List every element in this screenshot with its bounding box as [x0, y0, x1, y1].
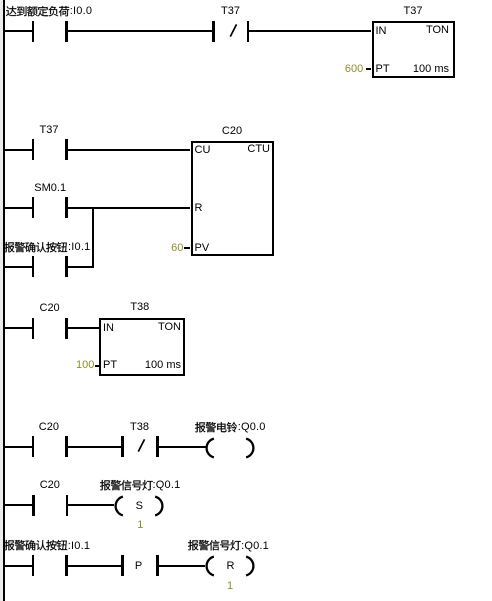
wire rail to contact SM0.1 [4, 207, 32, 209]
T38 type TON [158, 321, 181, 334]
label T37 (NC contact) [191, 5, 271, 18]
NC contact T37 left leg [212, 21, 214, 42]
label :Q0.1 rung 6 (latin part) [241, 540, 269, 553]
label 报警确认按钮:I0.1 rung 6 (CJK part) [4, 539, 68, 553]
reset coil Q0.1 alarm lamp [205, 555, 255, 577]
C20 pin PV [195, 242, 210, 255]
contact SM0.1 right leg [65, 197, 67, 218]
contact T37 right leg [65, 139, 67, 160]
contact C20 right leg rung 5 [66, 495, 68, 516]
wire rail to contact I0.0 [4, 30, 32, 32]
label C20 (contact) [10, 302, 90, 315]
timer T38 box label [100, 301, 180, 314]
branch vertical wire I0.1 up to R rung [92, 207, 94, 268]
wire contact C20 to timer T38 box [68, 327, 99, 329]
wire rail to contact C20 [4, 327, 32, 329]
wire rail to contact C20 rung 4 [4, 446, 32, 448]
wire contact I0.1 to branch [68, 266, 95, 268]
label SM0.1 [10, 182, 90, 195]
label 报警电铃:Q0.0 (CJK part) [195, 421, 238, 435]
contact SM0.1 left leg [32, 197, 34, 218]
T37 type TON [426, 24, 449, 37]
NC contact T38 right leg [156, 436, 158, 457]
timer T38 TON box [99, 318, 185, 377]
wire contact T37 to counter CU input [68, 149, 191, 151]
label 报警确认按钮:I0.1 (CJK part) [4, 241, 68, 255]
wire NC contact T38 to coil Q0.0 [159, 446, 206, 448]
counter C20 box label [192, 125, 272, 138]
contact C20 left leg rung 5 [32, 495, 34, 516]
set coil Q0.1 alarm lamp [114, 495, 164, 517]
wire contact I0.1 to P contact [68, 565, 122, 567]
contact C20 left leg [32, 318, 34, 339]
contact T37 left leg [32, 139, 34, 160]
C20 pin R [195, 202, 203, 215]
NC contact T38 slash [137, 438, 146, 453]
T37 pin PT [376, 63, 390, 76]
contact C20 left leg rung 4 [32, 436, 34, 457]
wire NC contact T37 to timer T37 box [249, 30, 372, 32]
output coil Q0.0 alarm bell [205, 437, 255, 459]
tick 600 to PT [366, 68, 372, 70]
T37 pin IN [376, 25, 387, 38]
contact I0.1 right leg rung 6 [65, 555, 67, 576]
T38 time base 100 ms [145, 359, 181, 372]
label T37 (contact) [9, 124, 89, 137]
contact C20 right leg [65, 318, 67, 339]
NC contact T37 slash [229, 23, 238, 38]
reset coil letter R [191, 560, 271, 573]
wire rail to contact T37 [4, 149, 32, 151]
positive edge contact P right leg [156, 555, 158, 576]
wire contact SM0.1 to counter R input [68, 207, 191, 209]
contact I0.1 right leg [65, 256, 67, 277]
label 报警信号灯:Q0.1 (CJK part) [100, 479, 154, 493]
wire rail to contact I0.1 [4, 266, 32, 268]
label 达到额定负荷:I0.0 (CJK part), input I0.0 [6, 5, 70, 19]
wire rail to contact C20 rung 5 [4, 504, 33, 506]
C20 PV value 60 [171, 242, 183, 255]
contact I0.0 left leg [32, 21, 34, 42]
left power rail [0, 0, 3, 601]
label :I0.0 (latin part) [70, 5, 92, 18]
set coil letter S [99, 500, 179, 513]
positive edge letter P [99, 560, 179, 573]
T38 pin IN [103, 322, 114, 335]
timer T37 TON box [372, 21, 455, 78]
label :I0.1 rung 6 (latin part) [68, 540, 90, 553]
set coil count 1 [100, 519, 180, 532]
contact I0.0 right leg [65, 21, 67, 42]
label :Q0.1 (latin part) [153, 479, 181, 492]
tick 60 to PV [184, 247, 190, 249]
wire P contact to reset coil [159, 565, 205, 567]
contact I0.1 left leg rung 6 [32, 555, 34, 576]
tick 100 to PT [95, 365, 99, 367]
NC contact T37 right leg [247, 21, 249, 42]
T38 PT value 100 [76, 359, 94, 372]
label :Q0.0 (latin part) [238, 421, 266, 434]
label :I0.1 (latin part) [68, 241, 90, 254]
contact C20 right leg rung 4 [65, 436, 67, 457]
reset coil count 1 [190, 580, 270, 593]
NC contact T38 left leg [121, 436, 123, 457]
label C20 (contact, rung 5) [10, 479, 90, 492]
wire contact C20 to NC contact T38 [68, 446, 122, 448]
wire rail to contact I0.1 rung 6 [4, 565, 32, 567]
contact I0.1 left leg [32, 256, 34, 277]
label 报警信号灯:Q0.1 rung 6 (CJK part) [188, 539, 242, 553]
T37 time base 100 ms [413, 63, 449, 76]
counter C20 CTU box [191, 141, 275, 256]
label T38 (NC contact) [100, 421, 180, 434]
C20 type CTU [247, 143, 270, 156]
wire contact I0.0 to NC contact T37 [68, 30, 213, 32]
T38 pin PT [103, 359, 117, 372]
T37 PT value 600 [345, 63, 363, 76]
C20 pin CU [195, 144, 211, 157]
wire contact C20 to set coil [68, 504, 114, 506]
label C20 (contact, rung 4) [9, 421, 89, 434]
timer T37 box label [373, 5, 453, 18]
positive edge contact P left leg [121, 555, 123, 576]
